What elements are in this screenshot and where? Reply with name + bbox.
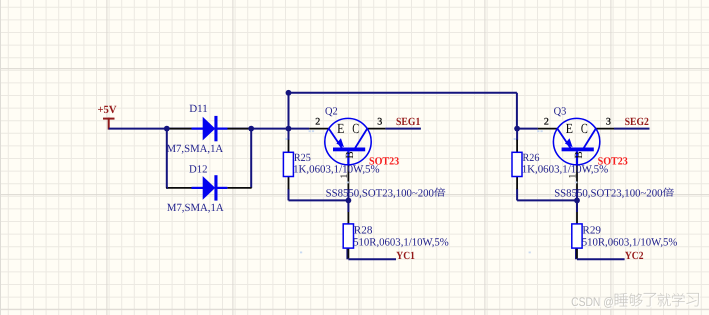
svg-text:1K,0603,1/10W,5%: 1K,0603,1/10W,5% [522,163,609,175]
svg-text:2: 2 [315,117,320,128]
svg-text:B: B [573,151,585,158]
svg-text:SOT23: SOT23 [598,155,629,167]
svg-text:C: C [352,122,359,137]
svg-text:YC2: YC2 [625,250,644,262]
svg-text:+5V: +5V [98,104,117,116]
svg-text:E: E [566,122,573,137]
svg-text:E: E [337,122,344,137]
svg-text:B: B [344,151,356,158]
svg-text:YC1: YC1 [396,250,415,262]
svg-text:SEG1: SEG1 [396,116,420,128]
svg-text:510R,0603,1/10W,5%: 510R,0603,1/10W,5% [582,236,678,248]
svg-text:1K,0603,1/10W,5%: 1K,0603,1/10W,5% [293,163,380,175]
svg-text:R25: R25 [294,152,311,164]
svg-text:SEG2: SEG2 [625,116,650,128]
svg-text:R29: R29 [582,225,601,237]
svg-text:3: 3 [606,116,611,127]
svg-text:Q3: Q3 [554,105,567,117]
svg-text:SS8550,SOT23,100~200: SS8550,SOT23,100~200 [326,187,435,199]
svg-text:3: 3 [377,116,382,127]
svg-text:Q2: Q2 [325,105,338,117]
svg-text:M7,SMA,1A: M7,SMA,1A [167,143,224,155]
svg-text:R28: R28 [354,225,373,237]
svg-text:SS8550,SOT23,100~200: SS8550,SOT23,100~200 [554,187,663,199]
svg-text:D11: D11 [189,103,208,115]
svg-text:2: 2 [544,117,549,128]
svg-text:R26: R26 [523,152,540,164]
svg-text:510R,0603,1/10W,5%: 510R,0603,1/10W,5% [353,236,449,248]
svg-text:M7,SMA,1A: M7,SMA,1A [167,202,224,214]
svg-text:C: C [581,122,588,137]
svg-text:D12: D12 [189,164,208,176]
svg-text:CSDN @: CSDN @ [571,295,614,309]
svg-text:SOT23: SOT23 [369,155,400,167]
